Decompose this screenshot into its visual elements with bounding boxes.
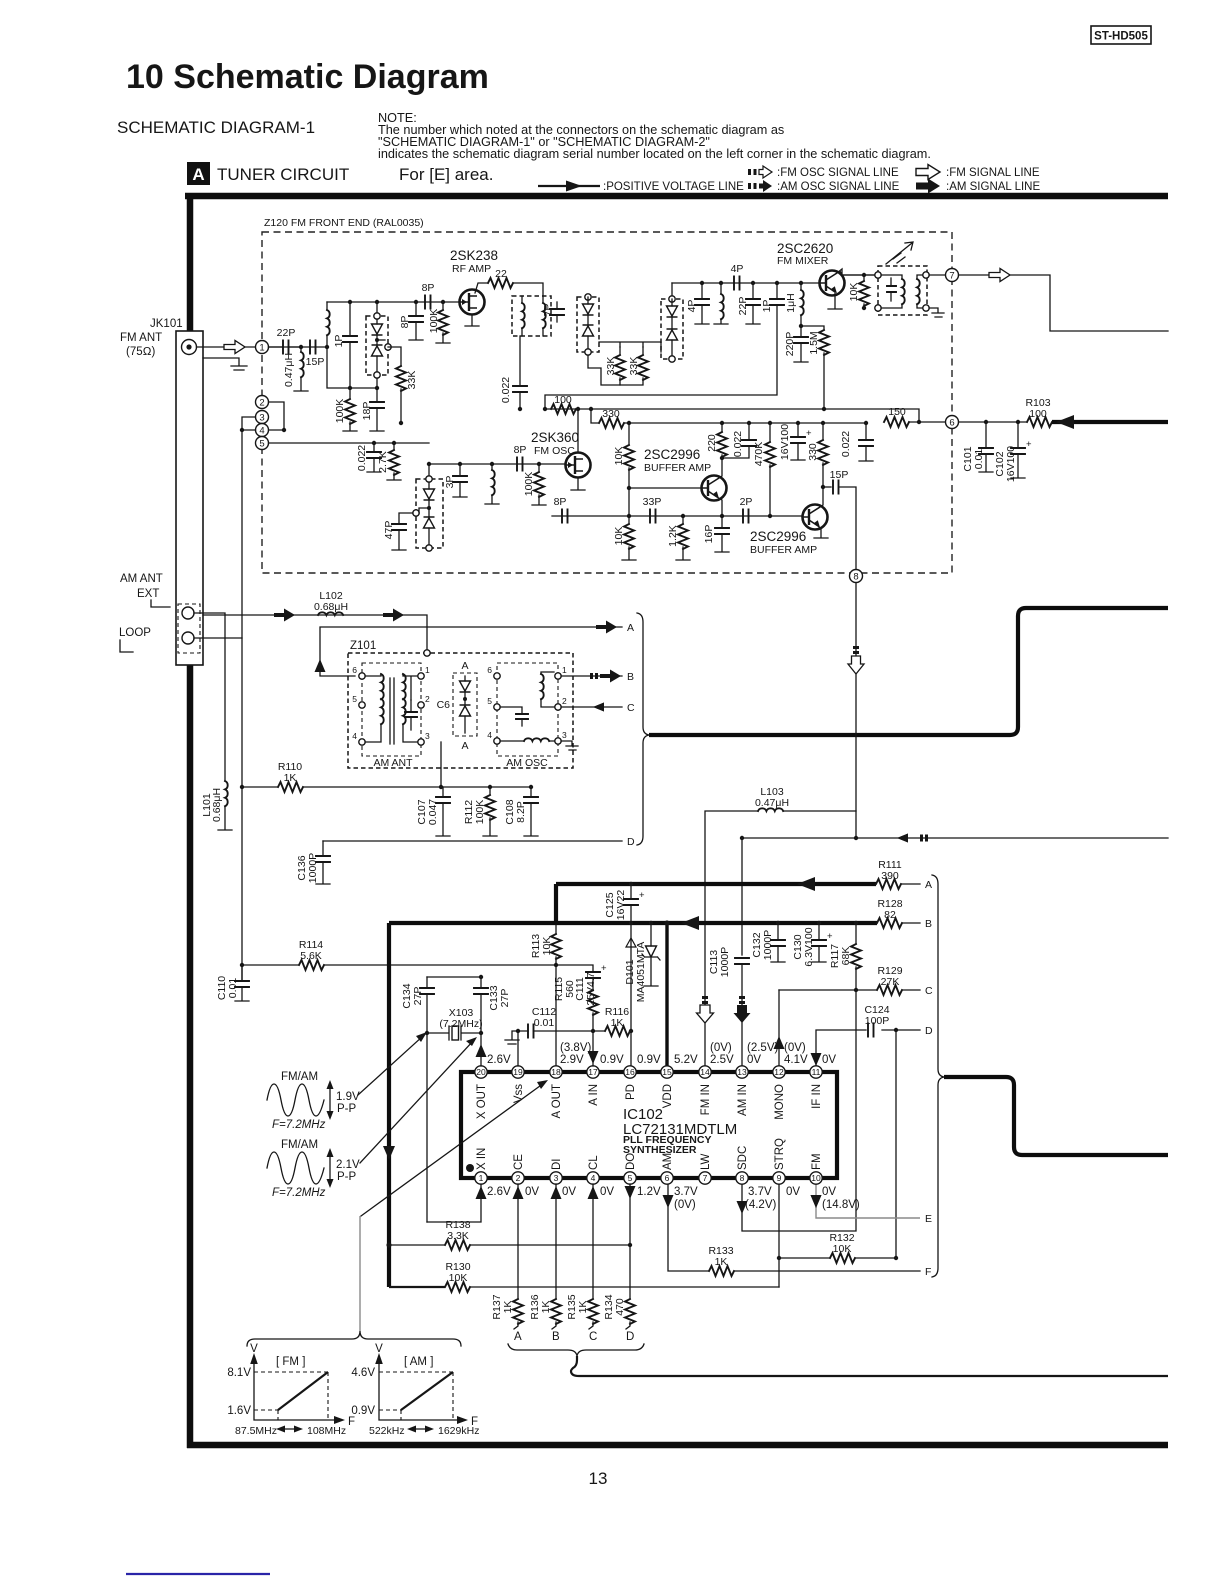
- capacitor C134 27P: [401, 977, 434, 1222]
- wire gate line 2SK360: [429, 463, 565, 465]
- svg-text:13: 13: [589, 1469, 608, 1488]
- capacitor 8P (buffer in): [554, 496, 568, 523]
- svg-text:1629kHz: 1629kHz: [438, 1425, 479, 1437]
- svg-text:16V100: 16V100: [1005, 446, 1017, 482]
- node 1: [256, 341, 269, 354]
- svg-text:3.7V: 3.7V: [674, 1186, 698, 1198]
- brace left bundle: [637, 613, 649, 845]
- svg-text:6: 6: [949, 418, 954, 429]
- wire thick vertical A to R113: [554, 884, 558, 925]
- svg-text:68K: 68K: [840, 947, 852, 966]
- IC pin names bottom: [476, 1138, 823, 1170]
- svg-text:0.047: 0.047: [427, 799, 439, 825]
- resistor 220: [706, 421, 727, 458]
- wire pin2 drop / resistor R137 1K: [491, 1184, 523, 1343]
- node 2: [256, 396, 269, 409]
- inductor L101 0.68uH: [201, 781, 232, 830]
- capacitor C136 1000P: [296, 841, 330, 884]
- wires node 2-4 ladder: [240, 402, 286, 638]
- svg-text:FM ANT: FM ANT: [120, 332, 162, 344]
- svg-text:27P: 27P: [412, 987, 424, 1006]
- wire to node 7: [929, 274, 945, 276]
- svg-text:10K: 10K: [833, 1243, 852, 1255]
- Z101 outer dashed box: [348, 653, 573, 768]
- capacitor C124 100P: [864, 1004, 933, 1037]
- capacitor C132 1000P: [751, 921, 785, 962]
- legend positive voltage line: [538, 181, 744, 194]
- svg-text:1.2K: 1.2K: [667, 525, 679, 547]
- AM OSC arrow symbol (to right): [897, 834, 928, 843]
- wire Z101 pin3 to R110 line: [440, 742, 442, 787]
- svg-text:87.5MHz: 87.5MHz: [235, 1425, 277, 1437]
- svg-text:4: 4: [352, 731, 357, 741]
- svg-text:2.1V: 2.1V: [336, 1159, 360, 1171]
- svg-text:A IN: A IN: [588, 1084, 600, 1106]
- coil to top rail: [327, 302, 330, 347]
- AM ANT EXT labels: [120, 573, 170, 652]
- svg-text:2: 2: [259, 398, 264, 409]
- capacitor 33P: [643, 496, 662, 523]
- svg-text:10 Schematic Diagram: 10 Schematic Diagram: [126, 58, 489, 96]
- capacitor C125 16V22 electrolytic: [604, 882, 645, 925]
- wire E line: [816, 1184, 920, 1218]
- svg-text:(14.8V): (14.8V): [822, 1199, 860, 1211]
- svg-text:1K: 1K: [540, 1301, 552, 1314]
- resistor R117 68K: [829, 921, 861, 992]
- svg-text:17: 17: [588, 1067, 598, 1077]
- svg-text:Z120 FM FRONT END (RAL0035): Z120 FM FRONT END (RAL0035): [264, 217, 424, 229]
- AM arrow a: [274, 609, 295, 622]
- svg-text:(0V): (0V): [674, 1199, 696, 1211]
- svg-text:3: 3: [562, 730, 567, 740]
- svg-text:100K: 100K: [523, 472, 535, 497]
- MONO up arrow: [774, 1036, 785, 1049]
- svg-text:IF IN: IF IN: [811, 1084, 823, 1109]
- wire D line (right): [816, 1030, 920, 1066]
- AM OSC transformer box: [487, 663, 567, 769]
- inductor L103 0.47uH: [705, 786, 856, 1066]
- wire buffer rail top: [545, 409, 919, 422]
- output IF transformer: [875, 266, 929, 315]
- svg-text:0V: 0V: [786, 1186, 800, 1198]
- AM signal arrow from C: [593, 703, 614, 712]
- svg-text:F: F: [348, 1416, 355, 1428]
- FM signal arrow (out): [989, 269, 1010, 282]
- svg-text:100K: 100K: [428, 309, 440, 334]
- svg-text:EXT: EXT: [137, 588, 159, 600]
- svg-text:522kHz: 522kHz: [369, 1425, 405, 1437]
- crystal X103 7.2MHz: [427, 1007, 483, 1040]
- svg-text:16V22: 16V22: [615, 890, 627, 921]
- capacitor 4P (shunt): [686, 281, 709, 324]
- E down arrow: [811, 1195, 822, 1208]
- wire loop to L101: [194, 613, 225, 781]
- wire R132 riser: [895, 1030, 897, 1258]
- wire RF top rail: [327, 301, 459, 303]
- svg-text:3P: 3P: [444, 476, 456, 489]
- wire L102 line: [203, 615, 427, 653]
- svg-text:0.9V: 0.9V: [600, 1054, 624, 1066]
- IC pin circles top row: [475, 1066, 822, 1078]
- svg-text:1K: 1K: [577, 1301, 589, 1314]
- capacitor 1P: [333, 300, 357, 390]
- wire osc rail: [591, 409, 599, 423]
- svg-text:SDC: SDC: [737, 1146, 749, 1170]
- svg-text:5: 5: [487, 696, 492, 706]
- capacitor 47P: [383, 513, 413, 550]
- wire node1 input line: [269, 346, 328, 348]
- inductor 1uH: [785, 281, 804, 328]
- AM arrow b: [383, 609, 404, 622]
- transistor 2SK360 FM OSC: [531, 430, 591, 478]
- svg-text:AM OSC: AM OSC: [506, 757, 548, 769]
- svg-text:8P: 8P: [554, 496, 567, 508]
- svg-text:VDD: VDD: [662, 1084, 674, 1108]
- thick wire bundle to right edge: [649, 608, 1168, 735]
- svg-text:Vss: Vss: [513, 1084, 525, 1103]
- svg-text:LOOP: LOOP: [119, 627, 151, 639]
- svg-text:+: +: [827, 931, 833, 942]
- svg-text:A: A: [514, 1331, 522, 1343]
- legend FM OSC signal line: [748, 166, 899, 179]
- svg-text:D: D: [626, 1331, 634, 1343]
- svg-text:X IN: X IN: [476, 1148, 488, 1170]
- 2SC2620 emitter ground: [828, 293, 842, 309]
- svg-text:1000P: 1000P: [719, 947, 731, 977]
- svg-text:1: 1: [259, 343, 264, 354]
- main schematic frame border: [185, 193, 1168, 1448]
- resistor R129 27K: [877, 965, 933, 997]
- wire A thick line: [556, 882, 876, 886]
- waveform FM/AM 2: [267, 1139, 360, 1199]
- svg-text:0V: 0V: [822, 1054, 836, 1066]
- voltages top row: [487, 1042, 836, 1066]
- svg-text:(2.5V): (2.5V): [747, 1042, 778, 1054]
- svg-text:6: 6: [665, 1173, 670, 1183]
- svg-text:10K: 10K: [613, 527, 625, 546]
- varactor diode pair D (RF input): [366, 300, 391, 390]
- capacitor 0.022 (mixer inj): [500, 336, 527, 411]
- FM arrow into node 1: [224, 341, 245, 354]
- svg-text:0V: 0V: [562, 1186, 576, 1198]
- svg-text:(0V): (0V): [784, 1042, 806, 1054]
- svg-text:1K: 1K: [502, 1301, 514, 1314]
- svg-text:E: E: [925, 1213, 932, 1225]
- svg-text:3: 3: [425, 731, 430, 741]
- svg-text:0.47μH: 0.47μH: [283, 353, 295, 387]
- capacitor C111 25V4.7 / resistor R115 560: [553, 963, 607, 1033]
- AM signal arrow on R103 line: [1056, 415, 1074, 429]
- node 8: [850, 570, 863, 583]
- wire AM OSC feed line: [740, 836, 1168, 955]
- wire pin5 drop / resistor R134 470: [603, 1184, 635, 1343]
- AM ANT transformer box: [352, 663, 430, 769]
- svg-text:5: 5: [352, 694, 357, 704]
- svg-text:10: 10: [811, 1173, 821, 1183]
- svg-text::AM SIGNAL LINE: :AM SIGNAL LINE: [946, 181, 1040, 193]
- svg-text:DI: DI: [551, 1159, 563, 1171]
- svg-text:(3.8V): (3.8V): [560, 1042, 591, 1054]
- svg-text:JK101: JK101: [150, 318, 183, 330]
- node 5: [256, 437, 269, 450]
- resistor 330 (osc): [599, 408, 866, 428]
- svg-text:FM/AM: FM/AM: [281, 1139, 318, 1151]
- annotation arrow to crystal left: [358, 1036, 423, 1095]
- svg-text:C6: C6: [437, 699, 451, 711]
- svg-text:1: 1: [562, 665, 567, 675]
- capacitor 220P: [784, 326, 808, 362]
- node 3: [256, 411, 269, 424]
- svg-text:RF AMP: RF AMP: [452, 263, 491, 275]
- svg-text:4: 4: [487, 730, 492, 740]
- svg-text::FM OSC SIGNAL LINE: :FM OSC SIGNAL LINE: [777, 167, 899, 179]
- svg-text:CE: CE: [513, 1154, 525, 1170]
- svg-text:Z101: Z101: [350, 640, 376, 652]
- svg-text:150: 150: [888, 406, 906, 418]
- wire A line: [320, 627, 622, 676]
- Z120 FM FRONT END dashed box: [262, 232, 952, 573]
- svg-text:220: 220: [706, 434, 718, 452]
- svg-text:2.9V: 2.9V: [560, 1054, 584, 1066]
- svg-text:7: 7: [949, 271, 954, 282]
- FM IN arrow symbol: [697, 996, 714, 1023]
- svg-text:3.3K: 3.3K: [447, 1230, 469, 1242]
- svg-text:0.68μH: 0.68μH: [314, 601, 348, 613]
- capacitor 15P: [823, 469, 856, 570]
- capacitor C110 0.01: [216, 965, 249, 1001]
- wire pin16 feed: [630, 923, 632, 1066]
- brace over graphs: [247, 1331, 461, 1346]
- capacitor C107 0.047: [416, 787, 450, 836]
- capacitor 0.022 (buffer1): [722, 421, 756, 458]
- svg-text:1000P: 1000P: [762, 930, 774, 960]
- resistor R112 100K: [463, 785, 497, 836]
- resistor 1.5M: [801, 326, 829, 411]
- svg-text:3.7V: 3.7V: [748, 1186, 772, 1198]
- wire F line: [668, 1184, 920, 1271]
- capacitor 15P: [306, 341, 330, 369]
- AM IN arrow symbol: [734, 996, 751, 1023]
- svg-text:0V: 0V: [525, 1186, 539, 1198]
- diode D101 MA4051MTA: [624, 921, 660, 1002]
- svg-text:F=7.2MHz: F=7.2MHz: [272, 1187, 326, 1199]
- svg-text:25V4.7: 25V4.7: [585, 972, 597, 1005]
- svg-text:3: 3: [259, 413, 264, 424]
- svg-text:B: B: [627, 671, 634, 683]
- inductor L102 0.68uH: [314, 590, 348, 615]
- capacitor 7P: [542, 302, 564, 322]
- capacitor 18P: [361, 388, 384, 431]
- svg-text:4.6V: 4.6V: [351, 1367, 375, 1379]
- svg-text:V: V: [250, 1343, 258, 1355]
- capacitor 2P: [740, 496, 753, 523]
- svg-text:7P: 7P: [542, 304, 554, 317]
- IC pin names top: [476, 1084, 823, 1120]
- svg-text:2: 2: [562, 696, 567, 706]
- thick wire bundle 2 to right edge: [944, 1077, 1168, 1155]
- svg-text:2.5V: 2.5V: [710, 1054, 734, 1066]
- svg-text:100K: 100K: [334, 399, 346, 424]
- annotation arrow to A OUT: [361, 1083, 544, 1216]
- svg-text:2.6V: 2.6V: [487, 1054, 511, 1066]
- svg-text:8P: 8P: [514, 444, 527, 456]
- wire node7 FM out: [959, 275, 1169, 331]
- svg-text:18: 18: [551, 1067, 561, 1077]
- capacitor 8P shunt (gate): [399, 300, 423, 340]
- resistor R114 5.6K: [240, 939, 556, 970]
- svg-text:11: 11: [812, 1067, 821, 1077]
- resistor 150: [884, 406, 945, 427]
- capacitor 0.022 (osc): [356, 441, 381, 472]
- resistor 470K: [753, 421, 775, 518]
- svg-text:AM IN: AM IN: [737, 1084, 749, 1116]
- coil (osc tank): [485, 462, 499, 504]
- IC pin circles bottom row: [475, 1172, 822, 1184]
- resistor 10K (buffer bias upper): [613, 421, 634, 518]
- svg-text:FM MIXER: FM MIXER: [777, 255, 829, 267]
- svg-text:D: D: [925, 1025, 933, 1037]
- svg-text:P-P: P-P: [337, 1103, 357, 1115]
- resistor 100K (RF tank): [334, 388, 357, 431]
- svg-text:A: A: [925, 879, 932, 891]
- svg-text:0.68μH: 0.68μH: [211, 788, 223, 822]
- svg-text:+: +: [601, 963, 607, 974]
- wire loop2 to bus: [194, 638, 242, 981]
- resistor 1.2K: [667, 514, 690, 560]
- svg-text:(75Ω): (75Ω): [126, 346, 155, 358]
- 2SK360 drain wire: [577, 409, 579, 453]
- transistor 2SC2996 BUFFER AMP 2: [750, 487, 828, 556]
- connector JK101 body: [120, 318, 203, 665]
- svg-text:1K: 1K: [715, 1256, 728, 1268]
- wire pin12 MONO riser: [778, 990, 780, 1066]
- resistor 330 (buffer2): [807, 421, 828, 489]
- svg-text:F: F: [925, 1266, 931, 1278]
- svg-text:10K: 10K: [449, 1272, 468, 1284]
- wire mixer collector: [837, 269, 878, 275]
- svg-text:1.6V: 1.6V: [227, 1405, 251, 1417]
- pin17 down arrow: [588, 1051, 599, 1064]
- svg-text:DO: DO: [625, 1153, 637, 1170]
- svg-text:8.1V: 8.1V: [227, 1367, 251, 1379]
- wire C line: [561, 706, 622, 708]
- svg-text::FM SIGNAL LINE: :FM SIGNAL LINE: [946, 167, 1040, 179]
- note block: [378, 111, 931, 161]
- resistor 33K (varactor feed): [388, 347, 418, 425]
- FM OSC arrow symbol on node8 line: [848, 646, 864, 674]
- wire X IN loop: [427, 1184, 481, 1222]
- varactor C6 (AM tuning): [437, 660, 477, 752]
- wire transformer secondary ground: [929, 308, 944, 317]
- svg-text:0V: 0V: [747, 1054, 761, 1066]
- transistor 2SC2620 FM MIXER: [777, 241, 845, 296]
- wire B line: [561, 675, 622, 677]
- svg-text:0.9V: 0.9V: [351, 1405, 375, 1417]
- svg-text:C: C: [925, 985, 933, 997]
- capacitor C101 0.01: [962, 420, 993, 472]
- legend AM signal line: [916, 179, 1040, 194]
- svg-text:C: C: [627, 702, 635, 714]
- svg-text:B: B: [925, 918, 932, 930]
- resistor 10K (mixer out): [848, 273, 869, 310]
- svg-text:A: A: [192, 165, 204, 184]
- resistor R110 1K: [240, 761, 531, 792]
- resistor R113 10K: [530, 925, 561, 967]
- svg-text:16V100: 16V100: [779, 424, 791, 460]
- svg-text:470: 470: [614, 1298, 626, 1316]
- svg-text:0V: 0V: [600, 1186, 614, 1198]
- resistor R116 1K: [605, 1006, 633, 1036]
- capacitor C130 6.3V100 electrolytic: [792, 921, 833, 967]
- svg-text:A: A: [461, 660, 468, 672]
- capacitor C102 16V100 electrolytic: [994, 420, 1032, 482]
- svg-text:2.7K: 2.7K: [377, 451, 389, 473]
- svg-text:1.9V: 1.9V: [336, 1091, 360, 1103]
- svg-text:82: 82: [884, 909, 896, 921]
- wire JK101 to node 1: [197, 346, 257, 348]
- node 4: [256, 424, 269, 437]
- svg-text:MA4051MTA: MA4051MTA: [635, 942, 647, 1003]
- svg-text:2: 2: [516, 1173, 521, 1183]
- AM signal arrow to A: [596, 621, 617, 634]
- svg-text:1.2V: 1.2V: [637, 1186, 661, 1198]
- resistor 22 (drain): [475, 268, 543, 296]
- svg-text:5.2V: 5.2V: [674, 1054, 698, 1066]
- svg-text:33K: 33K: [605, 357, 617, 376]
- pin11 down arrow: [811, 1053, 822, 1066]
- resistor R128 82: [877, 898, 932, 930]
- wire pin20: [480, 1033, 482, 1066]
- svg-text:6: 6: [352, 665, 357, 675]
- wire thick B-bus vertical: [387, 923, 391, 1287]
- svg-text::AM OSC SIGNAL LINE: :AM OSC SIGNAL LINE: [777, 181, 900, 193]
- svg-text:FM IN: FM IN: [700, 1084, 712, 1115]
- svg-text:1.5M: 1.5M: [808, 331, 820, 354]
- resistor R133 1K: [708, 1245, 734, 1276]
- svg-text:2.6V: 2.6V: [487, 1186, 511, 1198]
- wire pin15 VDD thick: [665, 923, 668, 1066]
- B line arrow: [681, 916, 699, 930]
- svg-text:2SC2996: 2SC2996: [644, 447, 700, 462]
- transistor 2SC2996 BUFFER AMP 1: [629, 447, 727, 518]
- svg-text:A OUT: A OUT: [551, 1084, 563, 1119]
- svg-text:8: 8: [853, 572, 858, 583]
- wire node5 row: [269, 442, 430, 444]
- svg-text:33P: 33P: [643, 496, 662, 508]
- legend FM signal line: [916, 165, 1040, 180]
- svg-text:CL: CL: [588, 1155, 600, 1170]
- brace under A-D: [508, 1344, 644, 1356]
- wire RF lower rail: [327, 347, 377, 388]
- wire node8 drop: [855, 583, 857, 838]
- resistor 10K (buffer lower): [613, 516, 636, 560]
- svg-text:6: 6: [487, 665, 492, 675]
- svg-text:47P: 47P: [383, 521, 395, 540]
- svg-text:16: 16: [625, 1067, 635, 1077]
- coil (mixer tank): [714, 281, 728, 324]
- svg-text:+: +: [1026, 439, 1032, 450]
- ground + capacitor C112 0.01: [505, 1006, 605, 1066]
- trimmer arrow: [886, 242, 913, 264]
- svg-text:2SK238: 2SK238: [450, 248, 498, 263]
- svg-text:18P: 18P: [361, 402, 373, 421]
- node 6: [946, 416, 959, 429]
- svg-text:1μH: 1μH: [785, 293, 797, 312]
- svg-text:B: B: [552, 1331, 560, 1343]
- IC102 body: [461, 1072, 837, 1178]
- transistor 2SK238 RF AMP: [450, 248, 498, 315]
- wire R113 to pin18: [555, 965, 557, 1066]
